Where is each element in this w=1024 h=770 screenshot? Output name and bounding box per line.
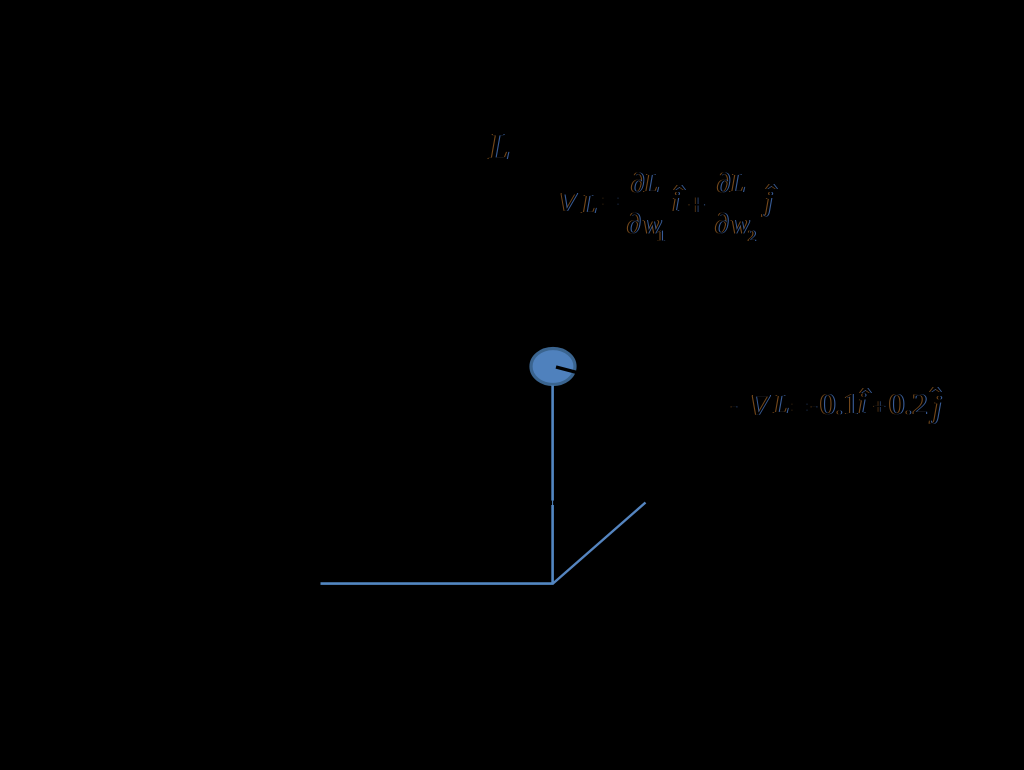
horizontal blue line <box>321 582 554 585</box>
0.1 <box>820 388 859 419</box>
denominator dw of second fraction <box>715 211 752 239</box>
hat over i <box>674 182 685 215</box>
numerator dL of first fraction <box>631 170 659 197</box>
hat over j <box>930 384 941 417</box>
equals sign <box>791 393 808 423</box>
label L (loss function) <box>489 128 510 166</box>
black hand line inside ellipse <box>556 367 577 373</box>
denominator dw of first fraction <box>627 211 664 239</box>
thin blue sliver inside notch <box>552 501 554 505</box>
black notch over vertical line <box>549 501 556 505</box>
j of j-hat <box>765 189 773 217</box>
ball ellipse (weight point) <box>531 349 575 385</box>
leading minus <box>731 396 737 414</box>
vertical blue line <box>551 386 554 585</box>
L of nabla-L <box>582 191 597 218</box>
equals sign <box>602 187 619 217</box>
nabla (rotated Delta) <box>556 188 579 215</box>
hat over j <box>766 181 777 214</box>
subscript 2 <box>748 229 756 245</box>
L <box>774 391 789 418</box>
j of j-hat <box>933 390 942 422</box>
i of i-hat <box>858 389 866 419</box>
i of i-hat <box>672 189 680 217</box>
plus sign <box>688 189 705 220</box>
subscript 1 <box>657 229 665 245</box>
numerator dL of second fraction <box>717 170 745 197</box>
nabla (rotated Delta) <box>747 389 773 419</box>
0.2 <box>889 388 928 419</box>
plus sign <box>873 396 885 418</box>
hat over i <box>860 385 871 418</box>
minus before 0.1 <box>811 396 817 414</box>
diagonal blue line <box>553 503 646 584</box>
